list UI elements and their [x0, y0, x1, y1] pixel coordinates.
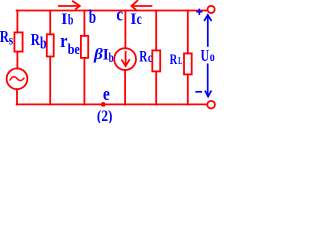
svg-text:e: e — [103, 85, 110, 105]
resistor Rs — [14, 32, 22, 51]
voltage arrow Uo upper (points up) — [207, 16, 209, 47]
svg-text:(2): (2) — [97, 108, 113, 123]
svg-text:R: R — [139, 49, 148, 66]
wire bottom rail (node e rail) — [17, 103, 208, 105]
current arrow Ic — [132, 5, 152, 7]
svg-text:b: b — [40, 33, 47, 52]
controlled current source betaIb — [114, 48, 136, 70]
source Us (AC signal source) — [7, 68, 28, 89]
wire Rb branch lower — [49, 57, 51, 105]
current arrow Ib — [59, 5, 80, 7]
svg-text:be: be — [68, 42, 81, 58]
node e junction dot — [101, 102, 106, 107]
voltage arrow Uo lower (points down) — [207, 64, 209, 96]
terminal - (bottom right) — [207, 101, 215, 109]
svg-text:o: o — [210, 50, 215, 65]
wire source to bottom rail — [16, 89, 18, 104]
terminal + (top right) — [208, 6, 215, 13]
svg-text:s: s — [9, 33, 14, 48]
resistor rbe — [81, 36, 88, 58]
wire RL branch lower — [187, 74, 189, 104]
wire Rb branch upper — [49, 11, 51, 35]
resistor Rc — [152, 50, 160, 71]
wire RL branch upper — [187, 11, 189, 54]
wire rbe branch lower — [83, 58, 85, 105]
wire Rs branch upper — [16, 11, 18, 33]
svg-text:b: b — [109, 51, 114, 66]
svg-text:I: I — [61, 11, 67, 28]
svg-text:b: b — [89, 7, 96, 28]
wire Rc branch lower — [155, 71, 157, 104]
wire rbe branch upper (node b drop) — [83, 11, 85, 37]
svg-text:R: R — [170, 52, 178, 68]
wire Rs to source Us — [16, 52, 18, 69]
resistor Rb — [47, 34, 54, 56]
svg-text:b: b — [68, 13, 74, 29]
wire controlled source to bottom rail — [124, 70, 126, 104]
svg-text:c: c — [116, 5, 123, 26]
svg-text:I: I — [130, 11, 136, 28]
resistor RL — [184, 53, 192, 74]
wire top rail b-c rail — [17, 10, 208, 12]
svg-text:U: U — [201, 46, 210, 65]
wire Rc branch upper — [155, 11, 157, 51]
svg-text:β: β — [93, 46, 103, 63]
minus sign — [195, 91, 202, 93]
plus sign — [196, 9, 202, 15]
svg-text:L: L — [178, 56, 182, 67]
svg-text:c: c — [137, 11, 142, 28]
wire controlled-source branch upper (node c drop) — [124, 11, 126, 49]
svg-text:c: c — [148, 50, 152, 65]
